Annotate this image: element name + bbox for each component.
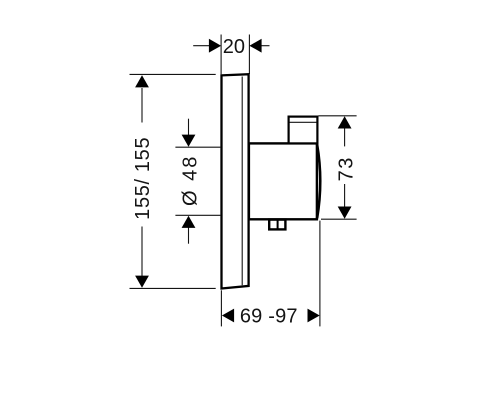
svg-text:Ø 48: Ø 48: [179, 155, 201, 206]
svg-text:155/ 155: 155/ 155: [132, 137, 154, 220]
svg-text:20: 20: [223, 36, 245, 58]
svg-text:73: 73: [335, 156, 357, 181]
svg-text:69 -97: 69 -97: [240, 306, 298, 328]
